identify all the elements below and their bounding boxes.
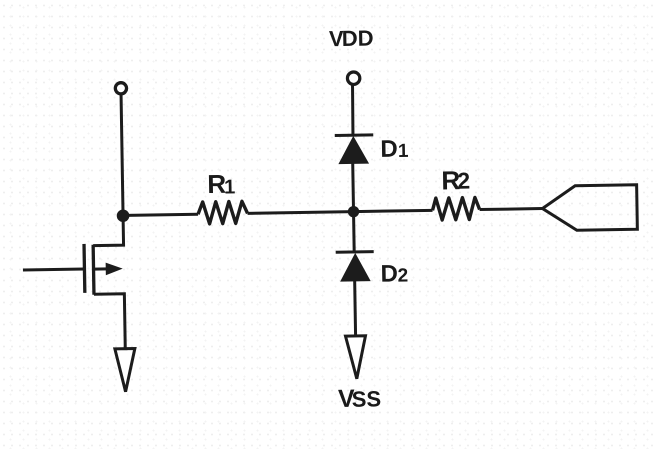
wire: R2 to pad bbox=[480, 209, 543, 210]
pad symbol (bonding pad pentagon) bbox=[542, 185, 637, 231]
resistor R1 bbox=[198, 201, 248, 224]
wire: source of Q1 down bbox=[94, 294, 125, 349]
terminal circle VDD bbox=[347, 72, 360, 85]
VSS arrow (open triangle pointing down) bbox=[345, 336, 366, 379]
diode D1 (cathode bar) bbox=[335, 133, 373, 137]
wire: node A to R1 bbox=[123, 214, 198, 215]
label VSS bbox=[338, 390, 355, 407]
wire: node B down to D2 cathode bbox=[352, 212, 356, 252]
diode D1 (anode triangle, pointing up) bbox=[339, 137, 368, 164]
wire: VDD terminal down to D1 cathode bbox=[352, 84, 353, 135]
wire: R1 to node B bbox=[248, 212, 354, 214]
node A (left junction dot) bbox=[117, 209, 130, 222]
terminal circle (drain output, top-left) bbox=[115, 83, 126, 94]
label VDD bbox=[329, 31, 344, 46]
label D2 bbox=[382, 265, 397, 282]
transistor Q1 body line with arrow bbox=[94, 267, 108, 270]
resistor R2 bbox=[432, 197, 479, 220]
wire: drain of Q1 up to node A bbox=[93, 215, 124, 245]
wire: gate input line bbox=[23, 269, 84, 270]
label R1 bbox=[209, 175, 226, 193]
label D1 bbox=[382, 140, 397, 157]
node B (center junction dot) bbox=[348, 206, 360, 218]
transistor Q1 channel bar bbox=[91, 245, 95, 295]
wire: drain vertical from terminal to node A bbox=[121, 94, 123, 216]
wire: D1 anode down to node B bbox=[351, 163, 355, 211]
diode D2 (cathode bar) bbox=[336, 250, 374, 254]
wire: node B to R2 bbox=[354, 210, 433, 211]
wire: D2 anode down to VSS arrow bbox=[353, 281, 357, 336]
transistor Q1 gate bar bbox=[82, 244, 86, 293]
label R2 bbox=[443, 171, 460, 189]
source arrow (open triangle pointing down) bbox=[115, 348, 136, 391]
diode D2 (anode triangle, pointing up) bbox=[341, 254, 370, 281]
